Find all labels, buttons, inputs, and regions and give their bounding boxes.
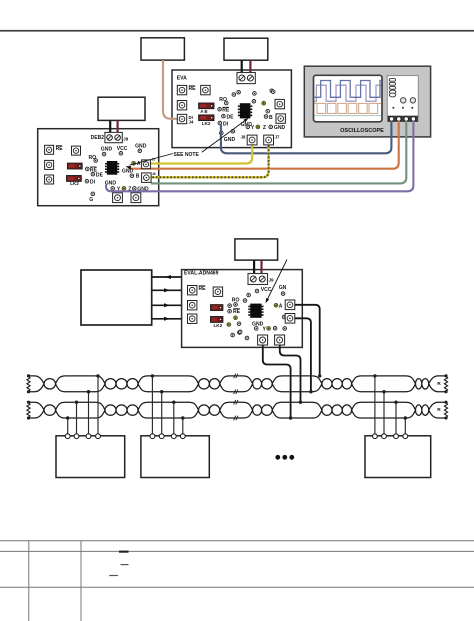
svg-text:RE: RE: [189, 86, 197, 92]
svg-text:LK2: LK2: [202, 121, 211, 126]
svg-text:LK2: LK2: [214, 323, 223, 328]
svg-text:Y: Y: [263, 326, 267, 332]
svg-text:DE: DE: [227, 115, 235, 121]
svg-text:GND: GND: [224, 137, 236, 143]
svg-text:GND: GND: [105, 180, 117, 186]
svg-text:J9: J9: [123, 136, 129, 141]
svg-text:G: G: [89, 197, 93, 203]
svg-text:R: R: [437, 381, 441, 387]
svg-text:A B: A B: [200, 109, 207, 114]
svg-text:RE: RE: [199, 286, 207, 292]
svg-text:B: B: [136, 174, 140, 180]
svg-text:OSCILLOSCOPE: OSCILLOSCOPE: [340, 128, 384, 134]
svg-text:A: A: [279, 304, 283, 310]
svg-text:EVA: EVA: [177, 76, 187, 82]
svg-text:J7: J7: [275, 135, 280, 140]
svg-text:DI: DI: [223, 122, 229, 128]
svg-text:SEE NOTE: SEE NOTE: [174, 152, 200, 158]
svg-text:J4: J4: [189, 120, 194, 125]
svg-text:R: R: [437, 407, 441, 413]
svg-text:DI: DI: [90, 180, 96, 186]
svg-text:J8: J8: [241, 135, 246, 140]
svg-text:EVAL-ADN469: EVAL-ADN469: [184, 271, 219, 277]
svg-text:J9: J9: [269, 277, 275, 282]
svg-text:DEB2: DEB2: [91, 135, 105, 141]
svg-text:LK2: LK2: [70, 181, 79, 186]
svg-text:A: A: [137, 161, 141, 167]
svg-text:GN: GN: [279, 285, 287, 291]
svg-text:RE: RE: [233, 309, 241, 315]
svg-text:GND: GND: [122, 168, 134, 174]
svg-text:RE: RE: [56, 146, 64, 152]
svg-text:DE: DE: [96, 173, 104, 179]
svg-text:Z: Z: [263, 125, 266, 131]
svg-text:Y: Y: [251, 125, 255, 131]
svg-text:GND: GND: [274, 125, 286, 131]
svg-text:GND: GND: [135, 143, 147, 149]
svg-text:VCC: VCC: [117, 146, 128, 152]
svg-text:B: B: [269, 115, 273, 121]
svg-text:GND: GND: [101, 147, 113, 153]
svg-text:VCC: VCC: [261, 287, 272, 293]
svg-text:RE: RE: [222, 108, 230, 114]
svg-text:J6: J6: [152, 172, 156, 176]
